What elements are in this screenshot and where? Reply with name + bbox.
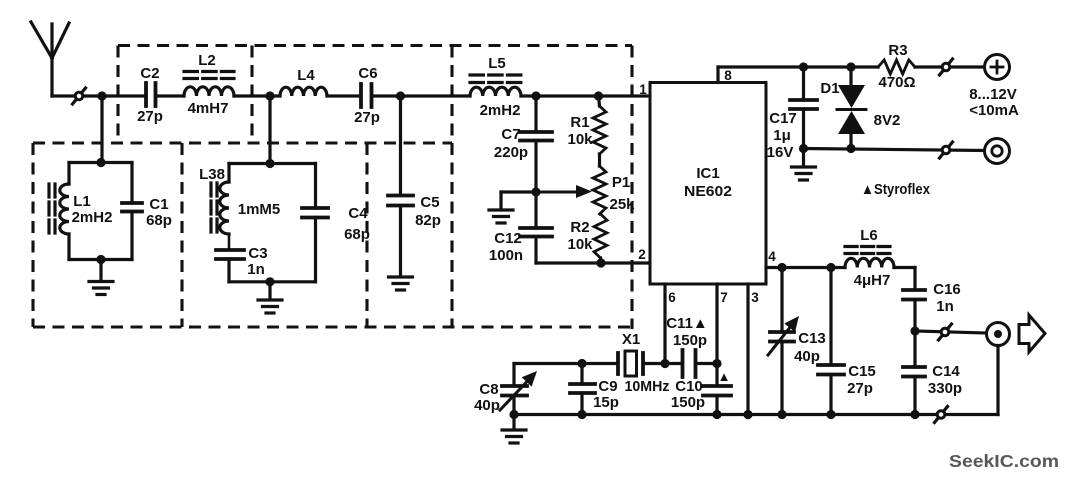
shield box right edge: [630, 46, 633, 330]
ground C17: [792, 149, 816, 181]
ground C8: [502, 415, 526, 444]
node C15 bottom junction: [826, 410, 835, 419]
node C17 bottom junction: [799, 144, 808, 153]
shield box divider at C2/L2 right: [250, 46, 253, 144]
resistor R2: [594, 214, 607, 258]
inductor L5: [470, 75, 521, 96]
svg-text:68p: 68p: [344, 226, 370, 243]
zener diode D1: [837, 67, 866, 149]
svg-text:C10: C10: [675, 378, 703, 395]
wire C6 to L5: [372, 94, 471, 97]
node C17 junction: [799, 62, 808, 71]
node D1 junction: [846, 62, 855, 71]
svg-text:X1: X1: [622, 331, 640, 348]
svg-text:4: 4: [768, 249, 776, 264]
svg-text:2mH2: 2mH2: [72, 209, 113, 226]
connector output: [939, 324, 952, 340]
wire crystal row: [514, 362, 618, 365]
svg-text:150p: 150p: [673, 332, 707, 349]
connector supply O: [940, 142, 953, 158]
wire L2 to L4: [234, 94, 280, 97]
connector output ground: [935, 407, 948, 423]
shield box divider at L38/C5: [365, 143, 368, 327]
svg-text:C3: C3: [248, 245, 267, 262]
node C9 top junction: [577, 359, 586, 368]
svg-text:L2: L2: [198, 52, 216, 69]
wire pin 4 row: [766, 266, 845, 269]
svg-text:C11▲: C11▲: [666, 315, 708, 332]
capacitor C3: [216, 234, 244, 282]
node C15/L6 junction: [826, 263, 835, 272]
ground L1 tank: [89, 260, 113, 295]
wire L1 tank bottom rail: [69, 258, 132, 261]
svg-text:C12: C12: [494, 230, 522, 247]
svg-text:1n: 1n: [247, 261, 265, 278]
node C5 junction: [396, 91, 405, 100]
wire output tap: [915, 331, 986, 333]
shield box middle edge: [33, 141, 452, 144]
capacitor C5: [388, 96, 413, 276]
pin 3 stub: [746, 284, 749, 415]
svg-text:8V2: 8V2: [874, 112, 901, 129]
node R2 bottom junction: [596, 258, 605, 267]
svg-text:3: 3: [751, 290, 759, 305]
svg-text:L4: L4: [297, 67, 315, 84]
capacitor C17: [790, 67, 817, 149]
pin 8 stub: [716, 67, 719, 83]
wire L4 to C6: [327, 94, 361, 97]
op-amp/mixer IC1 NE602: [650, 83, 766, 285]
svg-text:150p: 150p: [671, 394, 705, 411]
wire to ground branch: [501, 192, 536, 209]
crystal X1: [618, 351, 665, 376]
inductor L38: [211, 164, 229, 235]
svg-text:C5: C5: [420, 194, 439, 211]
wire C12/R2 to IC pin 2: [536, 261, 650, 264]
svg-text:D1: D1: [820, 80, 839, 97]
antenna: [31, 22, 69, 96]
capacitor C16: [903, 290, 925, 331]
node D1 bottom junction: [846, 144, 855, 153]
shield box top edge: [118, 44, 632, 47]
ground C7/C12: [489, 210, 513, 223]
svg-text:C14: C14: [932, 363, 960, 380]
inductor L4: [280, 87, 327, 96]
shield box left edge (input filter): [116, 46, 119, 141]
svg-text:L5: L5: [488, 55, 506, 72]
svg-text:C13: C13: [798, 330, 826, 347]
shield box bottom edge: [33, 325, 632, 328]
svg-text:7: 7: [720, 290, 728, 305]
svg-text:27p: 27p: [847, 380, 873, 397]
svg-text:C17: C17: [769, 110, 797, 127]
wire bottom ground rail: [514, 413, 998, 416]
svg-text:▲: ▲: [718, 369, 731, 384]
svg-text:C8: C8: [479, 381, 498, 398]
capacitor C6: [361, 84, 372, 107]
wire L38 tank bottom rail: [229, 280, 316, 283]
ground C5: [389, 277, 413, 290]
wire L1 tank top rail: [69, 161, 132, 164]
node C13 junction: [777, 263, 786, 272]
svg-text:R3: R3: [888, 42, 907, 59]
shield box left edge (L1 tank): [31, 143, 34, 327]
svg-text:C2: C2: [140, 65, 159, 82]
svg-text:8...12V: 8...12V: [969, 86, 1017, 103]
svg-text:R1: R1: [570, 114, 589, 131]
pin 7 stub: [715, 284, 718, 364]
svg-text:L6: L6: [860, 227, 878, 244]
wire ground rail to O terminal: [804, 149, 985, 151]
svg-text:100n: 100n: [489, 247, 523, 264]
capacitor C14: [903, 331, 925, 415]
svg-text:2: 2: [638, 247, 646, 262]
svg-text:15p: 15p: [593, 394, 619, 411]
svg-text:2mH2: 2mH2: [480, 102, 521, 119]
resistor R1: [593, 96, 607, 263]
svg-text:27p: 27p: [354, 109, 380, 126]
svg-text:10MHz: 10MHz: [625, 378, 670, 395]
wire pin 8 to supply rail: [718, 65, 878, 68]
svg-text:NE602: NE602: [684, 183, 732, 200]
output jack: [987, 323, 1010, 415]
shield box divider at L4/C6 right: [450, 46, 453, 328]
node C13 bottom junction: [777, 410, 786, 419]
svg-text:10k: 10k: [567, 131, 593, 148]
capacitor C10: [703, 364, 731, 415]
node output tap junction: [910, 326, 919, 335]
svg-text:C4: C4: [348, 205, 368, 222]
svg-text:40p: 40p: [474, 397, 500, 414]
node pin 3 bottom junction: [743, 410, 752, 419]
svg-text:470Ω: 470Ω: [878, 74, 915, 91]
wire L5 to IC pin 1: [521, 94, 650, 97]
node pin 6 junction: [660, 359, 669, 368]
svg-text:L1: L1: [73, 193, 91, 210]
node L38 tank bottom: [265, 277, 274, 286]
node L2/L4/L38 junction: [265, 91, 274, 100]
svg-text:C9: C9: [598, 378, 617, 395]
capacitor C12: [520, 228, 552, 263]
svg-text:C16: C16: [933, 281, 961, 298]
node C7/C12/wiper junction: [531, 187, 540, 196]
svg-text:8: 8: [724, 68, 732, 83]
resistor R3: [878, 60, 915, 74]
shield box divider at L1/L38: [180, 143, 183, 327]
svg-text:25k: 25k: [609, 196, 635, 213]
terminal +: [985, 55, 1010, 80]
svg-text:10k: 10k: [567, 236, 593, 253]
svg-text:L38: L38: [199, 166, 225, 183]
svg-text:330p: 330p: [928, 380, 962, 397]
wire L38 tank top rail: [229, 162, 316, 165]
node C10 bottom junction: [712, 410, 721, 419]
inductor L1: [49, 163, 69, 260]
svg-text:<10mA: <10mA: [969, 102, 1019, 119]
node C14 bottom junction: [910, 410, 919, 419]
svg-text:27p: 27p: [137, 108, 163, 125]
ground L38 tank: [258, 282, 282, 313]
capacitor C11: [683, 350, 718, 377]
node C9 bottom junction: [577, 410, 586, 419]
pin 6 stub: [663, 284, 666, 364]
node C8 ground junction: [509, 410, 518, 419]
svg-text:R2: R2: [570, 219, 589, 236]
svg-text:220p: 220p: [494, 144, 528, 161]
node R1 junction: [594, 91, 603, 100]
node antenna/L1 junction: [97, 91, 106, 100]
trimmer capacitor C13: [768, 268, 799, 415]
svg-text:IC1: IC1: [696, 165, 719, 182]
svg-text:1μ: 1μ: [773, 127, 791, 144]
node L38 tank top: [265, 159, 274, 168]
svg-text:68p: 68p: [146, 212, 172, 229]
svg-text:C1: C1: [149, 196, 168, 213]
capacitor C7: [520, 96, 552, 228]
wire pin6 to C11: [665, 362, 682, 365]
capacitor C15: [818, 268, 844, 415]
wire R3 to + terminal: [915, 65, 985, 68]
potentiometer P1 wiper arrow: [536, 185, 592, 198]
wire down to L38 tank: [268, 96, 271, 164]
svg-text:C6: C6: [358, 65, 377, 82]
svg-text:40p: 40p: [794, 348, 820, 365]
capacitor C9: [570, 364, 595, 415]
node L1 tank bottom: [96, 255, 105, 264]
svg-text:4mH7: 4mH7: [188, 100, 229, 117]
inductor L6: [845, 247, 894, 268]
capacitor C2: [146, 83, 156, 106]
svg-text:82p: 82p: [415, 212, 441, 229]
terminal O: [985, 139, 1010, 164]
antenna connector: [73, 88, 86, 104]
output block arrow: [1019, 315, 1045, 352]
svg-text:C7: C7: [501, 126, 520, 143]
svg-text:6: 6: [668, 290, 676, 305]
wire C2 to L2: [156, 94, 185, 97]
capacitor C4: [302, 164, 328, 282]
trimmer capacitor C8: [500, 364, 537, 415]
svg-text:▲Styroflex: ▲Styroflex: [861, 181, 931, 198]
wire antenna to C2: [52, 94, 146, 97]
svg-text:1mM5: 1mM5: [238, 201, 281, 218]
svg-text:16V: 16V: [767, 144, 794, 161]
svg-text:P1: P1: [612, 174, 630, 191]
wire down to L1 tank: [100, 96, 103, 163]
inductor L2: [184, 72, 234, 97]
node C7 junction: [531, 91, 540, 100]
capacitor C1: [122, 163, 142, 260]
svg-text:C15: C15: [848, 363, 876, 380]
node L1 tank top: [96, 158, 105, 167]
connector supply +: [940, 59, 953, 75]
svg-text:1n: 1n: [936, 298, 954, 315]
wire L6 to C16: [894, 268, 915, 291]
potentiometer P1 resistor body: [598, 154, 601, 166]
svg-text:1: 1: [639, 82, 647, 97]
svg-text:SeekIC.com: SeekIC.com: [949, 451, 1059, 471]
node pin 7 junction: [712, 359, 721, 368]
svg-text:4μH7: 4μH7: [854, 272, 891, 289]
